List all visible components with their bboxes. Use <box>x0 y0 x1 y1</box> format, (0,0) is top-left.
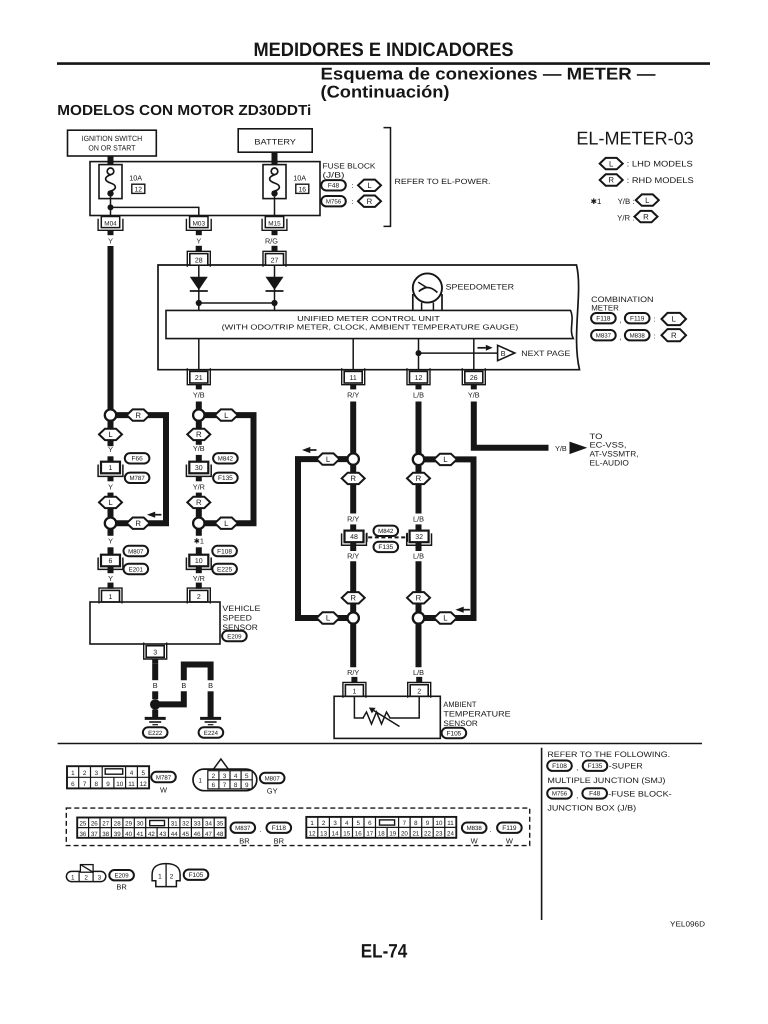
svg-text:15: 15 <box>343 831 350 838</box>
svg-text:M837: M837 <box>235 825 251 832</box>
svg-text:F105: F105 <box>189 872 204 879</box>
svg-text::: : <box>351 181 353 190</box>
svg-text:Y: Y <box>108 537 113 546</box>
svg-text:Y/R: Y/R <box>193 574 205 583</box>
svg-text:1: 1 <box>71 874 75 881</box>
svg-text:10A: 10A <box>129 174 142 183</box>
wire to ground E222 <box>152 710 158 718</box>
svg-text:30: 30 <box>195 465 203 472</box>
wire col4 seg3 <box>416 542 422 551</box>
svg-text:L: L <box>645 196 650 205</box>
hex L col4 bottom <box>434 612 457 623</box>
svg-text:30: 30 <box>137 821 144 828</box>
ref M807 <box>124 546 149 556</box>
wire fuse 12 to M04 <box>110 197 112 217</box>
hex L col3 top <box>317 453 340 464</box>
svg-text:1: 1 <box>71 770 75 777</box>
svg-text:2: 2 <box>322 820 326 827</box>
svg-text:M842: M842 <box>218 456 234 463</box>
svg-text:1: 1 <box>109 465 113 472</box>
inline connector 6 <box>101 555 120 567</box>
svg-text:L/B: L/B <box>413 391 424 400</box>
svg-text:8: 8 <box>95 781 99 788</box>
arrow to EC-VSS <box>570 442 588 455</box>
wire col3 seg2 <box>350 524 356 530</box>
svg-text:M838: M838 <box>467 825 483 832</box>
wire col B seg <box>152 691 158 699</box>
ref M787 bottom <box>151 772 176 782</box>
svg-text:: RHD MODELS: : RHD MODELS <box>627 176 695 185</box>
svg-text:B: B <box>181 681 186 690</box>
inline connector 10 <box>189 555 208 567</box>
smj dashed link <box>368 536 406 538</box>
connector M807 shape <box>193 769 257 791</box>
wire branch to E224 part1 <box>158 691 184 704</box>
svg-text:F119: F119 <box>630 316 645 323</box>
svg-text:L: L <box>224 411 229 420</box>
svg-text:11: 11 <box>128 781 135 788</box>
svg-text:IGNITION SWITCH: IGNITION SWITCH <box>82 134 143 143</box>
wire to next page <box>419 352 498 354</box>
ref F135 smj <box>374 542 399 552</box>
svg-text:28: 28 <box>114 821 121 828</box>
wire pin21 down to junction <box>196 402 202 410</box>
next page flag B <box>498 345 515 360</box>
svg-text:W: W <box>160 785 168 794</box>
wire col2 seg1 <box>196 421 202 445</box>
legend hex L star <box>636 194 659 205</box>
svg-text:1: 1 <box>109 594 113 601</box>
svg-text:M04: M04 <box>104 220 117 227</box>
ref F108 <box>212 546 237 556</box>
ref E209 <box>222 631 247 641</box>
diode D1 <box>190 277 208 290</box>
svg-text:FUSE BLOCK: FUSE BLOCK <box>323 161 376 170</box>
svg-text:11: 11 <box>350 375 357 382</box>
arrow into col4 bottom junction <box>455 607 463 613</box>
svg-text:39: 39 <box>114 831 121 838</box>
svg-text:F66: F66 <box>131 456 143 463</box>
svg-text:35: 35 <box>216 821 223 828</box>
svg-text:48: 48 <box>216 831 223 838</box>
svg-text:BATTERY: BATTERY <box>254 138 296 147</box>
svg-text:47: 47 <box>205 831 212 838</box>
svg-text::: : <box>351 197 353 206</box>
wire col1 seg5 <box>108 529 114 536</box>
svg-text:L: L <box>108 498 113 507</box>
svg-text:F48: F48 <box>328 183 340 190</box>
wire col3 seg5 <box>350 624 356 668</box>
smj dashed box <box>66 808 529 846</box>
svg-text::: : <box>654 331 656 340</box>
inline connector 48 <box>345 531 364 543</box>
svg-text:F48: F48 <box>589 791 601 798</box>
wire col1 seg1 <box>108 421 114 446</box>
svg-text:1: 1 <box>310 820 314 827</box>
svg-text:48: 48 <box>350 534 358 541</box>
svg-text:R: R <box>196 430 202 439</box>
svg-text:25: 25 <box>79 821 86 828</box>
wire pin12 down to junction <box>416 402 422 454</box>
svg-text:16: 16 <box>299 186 307 193</box>
hex R col4 upper <box>407 473 430 484</box>
diode junction dot 2 <box>271 300 277 306</box>
junction circle col3 top <box>348 453 359 464</box>
ref M787 <box>125 473 150 483</box>
ambient pin 2 <box>416 677 422 683</box>
pin 11 <box>342 368 365 385</box>
svg-text:L: L <box>609 159 614 168</box>
ref M842 smj <box>374 526 399 536</box>
svg-text:Y/R :: Y/R : <box>617 213 634 222</box>
svg-text:12: 12 <box>140 781 148 788</box>
fuse block J/B box <box>90 162 320 216</box>
wire col1 seg3 <box>108 476 114 481</box>
wire col3 seg3 <box>350 542 356 551</box>
wire col1 seg2 <box>108 456 114 461</box>
next page junction dot <box>416 350 422 356</box>
svg-text:W: W <box>471 837 479 846</box>
svg-text:E209: E209 <box>227 633 242 640</box>
svg-text:EL-74: EL-74 <box>361 941 408 963</box>
inline connector 32 <box>410 531 429 543</box>
svg-text:37: 37 <box>91 831 98 838</box>
wire col4 seg2 <box>416 524 422 530</box>
ref M837 bottom <box>231 823 256 833</box>
svg-text:B: B <box>208 681 213 690</box>
hex L col1 upper <box>99 429 122 440</box>
svg-text:42: 42 <box>148 831 155 838</box>
wire col1 seg4 <box>108 493 114 518</box>
svg-text:R/G: R/G <box>265 237 278 246</box>
wire M03 to pin 28 <box>196 246 202 252</box>
svg-text:4: 4 <box>234 773 238 780</box>
svg-text:R: R <box>135 519 141 528</box>
connector grid M787 <box>67 766 149 788</box>
svg-text:F118: F118 <box>596 316 611 323</box>
wire down to ground E224 <box>208 691 214 717</box>
svg-text:9: 9 <box>106 781 110 788</box>
svg-text:7: 7 <box>83 781 87 788</box>
svg-text:36: 36 <box>79 831 86 838</box>
svg-text:17: 17 <box>366 831 373 838</box>
svg-text:32: 32 <box>182 821 189 828</box>
svg-text:12: 12 <box>309 831 316 838</box>
ignition switch box <box>68 130 157 156</box>
ref M838 bottom <box>462 823 487 833</box>
legend hex R <box>600 174 623 185</box>
wire col2 seg2 <box>196 455 202 462</box>
vehicle speed sensor box <box>90 602 220 644</box>
hex R col3 lower <box>342 592 365 603</box>
svg-text:MODELOS CON MOTOR ZD30DDTi: MODELOS CON MOTOR ZD30DDTi <box>57 103 311 119</box>
svg-text:B: B <box>153 681 158 690</box>
connector F105 shape <box>152 864 180 887</box>
svg-text:UNIFIED METER CONTROL UNIT: UNIFIED METER CONTROL UNIT <box>297 314 440 323</box>
arrow into col1 bottom junction <box>147 512 155 518</box>
svg-text:L: L <box>326 614 331 623</box>
vss pin 2 <box>196 583 202 589</box>
svg-text:2: 2 <box>83 770 87 777</box>
svg-text:MEDIDORES E INDICADORES: MEDIDORES E INDICADORES <box>254 39 514 61</box>
svg-text:1: 1 <box>199 778 203 785</box>
svg-text:TEMPERATURE: TEMPERATURE <box>443 710 510 719</box>
svg-text:F119: F119 <box>502 825 517 832</box>
connector M04 <box>98 219 123 231</box>
svg-text:.: . <box>489 825 491 834</box>
svg-text:Y: Y <box>108 483 113 492</box>
wire fuse 16 to M15 <box>274 197 276 217</box>
ref F48 LHD <box>321 180 346 190</box>
thermistor arrow <box>373 710 400 727</box>
svg-text:,: , <box>619 316 621 325</box>
svg-text:6: 6 <box>368 820 372 827</box>
svg-text:✱1: ✱1 <box>194 537 204 546</box>
svg-text:Y: Y <box>196 237 201 246</box>
svg-text:3: 3 <box>333 820 337 827</box>
footer separator rule <box>58 743 702 745</box>
svg-text:7: 7 <box>403 820 407 827</box>
svg-text:5: 5 <box>141 770 145 777</box>
svg-text:34: 34 <box>205 821 212 828</box>
svg-text:SENSOR: SENSOR <box>443 719 478 728</box>
svg-text:E209: E209 <box>114 873 129 880</box>
svg-text:,: , <box>619 333 621 342</box>
svg-text:27: 27 <box>271 257 279 264</box>
svg-text:REFER TO THE FOLLOWING.: REFER TO THE FOLLOWING. <box>547 750 670 759</box>
svg-text:E201: E201 <box>129 566 144 573</box>
junction circle col4 bottom <box>413 612 424 623</box>
svg-text:M756: M756 <box>326 199 342 206</box>
wire pin11 down to junction <box>350 402 356 454</box>
svg-text:F118: F118 <box>272 825 287 832</box>
svg-text:F135: F135 <box>218 475 233 482</box>
wire col2 seg3 <box>196 476 202 481</box>
svg-text:45: 45 <box>182 831 189 838</box>
diode D2 <box>266 277 284 290</box>
junction circle col4 top <box>413 454 424 465</box>
svg-text:14: 14 <box>332 831 339 838</box>
svg-text:E224: E224 <box>204 730 219 737</box>
svg-text:TO: TO <box>590 432 603 441</box>
svg-text:18: 18 <box>378 831 385 838</box>
svg-text:F108: F108 <box>217 548 232 555</box>
wire battery to fuse <box>272 152 278 167</box>
svg-text:BR: BR <box>116 882 127 891</box>
svg-text:33: 33 <box>194 821 201 828</box>
svg-text:41: 41 <box>137 831 144 838</box>
junction circle col2 top <box>193 409 204 420</box>
svg-text:: LHD MODELS: : LHD MODELS <box>627 160 694 169</box>
svg-text:M756: M756 <box>552 791 568 798</box>
svg-text:R/Y: R/Y <box>347 668 359 677</box>
svg-text:(Continuación): (Continuación) <box>321 83 450 102</box>
svg-text:R: R <box>671 331 677 340</box>
svg-text:43: 43 <box>159 831 166 838</box>
svg-text::: : <box>654 314 656 323</box>
svg-text:21: 21 <box>412 831 419 838</box>
svg-text:W: W <box>506 837 514 846</box>
svg-text:32: 32 <box>415 534 423 541</box>
svg-text:M837: M837 <box>596 333 612 340</box>
svg-text:EL-METER-03: EL-METER-03 <box>576 128 693 149</box>
svg-text:8: 8 <box>234 782 238 789</box>
svg-text:10: 10 <box>436 820 443 827</box>
svg-text:10A: 10A <box>293 174 306 183</box>
refer block rule <box>541 748 543 920</box>
svg-text:F135: F135 <box>378 544 393 551</box>
ref M837 <box>591 330 616 340</box>
ref E209 bottom <box>109 870 134 880</box>
ref M807 bottom <box>260 773 285 783</box>
svg-text:B: B <box>501 349 506 358</box>
ref E201 <box>124 564 149 574</box>
svg-text:31: 31 <box>171 821 178 828</box>
svg-text:R: R <box>608 176 614 185</box>
svg-text:M03: M03 <box>193 220 206 227</box>
svg-text:46: 46 <box>194 831 201 838</box>
svg-text:26: 26 <box>91 821 98 828</box>
svg-text:SPEEDOMETER: SPEEDOMETER <box>446 283 515 292</box>
connector E209 shape <box>66 871 105 881</box>
svg-text:19: 19 <box>389 831 396 838</box>
vss pin 3 <box>144 643 167 660</box>
svg-text:Y: Y <box>108 237 113 246</box>
ref E225 <box>212 564 237 574</box>
svg-text:✱1: ✱1 <box>591 197 602 206</box>
wire unit to pin 21 <box>198 339 200 370</box>
svg-text:Esquema de conexiones — METER: Esquema de conexiones — METER — <box>321 65 656 84</box>
svg-text:M807: M807 <box>265 775 281 782</box>
svg-text:EL-AUDIO: EL-AUDIO <box>590 459 629 468</box>
hex R col2 upper <box>187 429 210 440</box>
svg-text:12: 12 <box>415 375 423 382</box>
svg-text:L: L <box>443 614 448 623</box>
svg-text:5: 5 <box>245 773 249 780</box>
svg-text:Y/R: Y/R <box>193 483 205 492</box>
svg-text:24: 24 <box>447 831 454 838</box>
svg-text:M787: M787 <box>156 774 172 781</box>
legend hex L <box>600 158 623 169</box>
header rule <box>57 62 710 65</box>
ref E224 <box>199 727 224 737</box>
wire col2 seg7 <box>196 567 202 573</box>
svg-text:ON OR START: ON OR START <box>88 144 135 153</box>
wire unit to pin 12 <box>418 339 420 370</box>
svg-text:,: , <box>576 791 578 800</box>
pin 26 <box>462 368 485 385</box>
svg-text:4: 4 <box>345 820 349 827</box>
svg-text:2: 2 <box>84 874 88 881</box>
combination meter box <box>158 265 580 370</box>
svg-text:F135: F135 <box>588 763 603 770</box>
ground E222 <box>145 717 166 720</box>
fuse 10A 16 <box>263 165 286 199</box>
svg-text:R: R <box>643 212 649 221</box>
pin 27 <box>272 246 278 252</box>
svg-text:1: 1 <box>352 688 356 695</box>
svg-text:,: , <box>576 763 578 772</box>
wire col3 seg4 <box>350 561 356 612</box>
svg-text:-FUSE BLOCK-: -FUSE BLOCK- <box>608 789 672 798</box>
wire M15 to pin 27 <box>272 246 278 252</box>
svg-text:2: 2 <box>170 874 174 881</box>
arrow out of col3 top junction <box>302 447 310 453</box>
svg-text:28: 28 <box>195 257 203 264</box>
pin 12 <box>407 368 430 385</box>
ref M756 footer <box>547 788 572 798</box>
svg-text:M838: M838 <box>630 333 646 340</box>
svg-text:(J/B): (J/B) <box>323 171 346 180</box>
svg-text:8: 8 <box>414 820 418 827</box>
svg-text:3: 3 <box>153 649 157 656</box>
hex L col1 lower <box>99 497 122 508</box>
ref F135 <box>213 473 238 483</box>
svg-text:9: 9 <box>426 820 430 827</box>
svg-text:5: 5 <box>356 820 360 827</box>
svg-text:YEL096D: YEL096D <box>670 920 706 929</box>
svg-text:23: 23 <box>436 831 443 838</box>
svg-text:REFER TO EL-POWER.: REFER TO EL-POWER. <box>395 177 491 186</box>
svg-text:L: L <box>367 181 372 190</box>
wire col4 seg5 <box>416 624 422 668</box>
inline connector 1 <box>101 462 120 474</box>
svg-text:GY: GY <box>267 786 278 795</box>
svg-text:13: 13 <box>320 831 327 838</box>
wire col4 seg1 <box>416 465 422 513</box>
pin 28 <box>196 246 202 252</box>
wire branch to M03 <box>111 207 199 216</box>
loop wire col1 RHD <box>111 415 167 523</box>
svg-text:L: L <box>326 455 331 464</box>
wire unit to pin 26 <box>473 339 475 370</box>
hex R col2 lower <box>187 497 210 508</box>
next page direction arrow <box>478 347 486 349</box>
svg-text:7: 7 <box>223 782 227 789</box>
svg-text:40: 40 <box>125 831 132 838</box>
thermistor zigzag <box>363 712 392 724</box>
inline connector 30 <box>189 462 208 474</box>
svg-text:R: R <box>367 197 373 206</box>
svg-text:L: L <box>108 430 113 439</box>
svg-text:1: 1 <box>158 874 162 881</box>
svg-text:3: 3 <box>98 874 102 881</box>
svg-text:R: R <box>135 411 141 420</box>
thermistor internal wiring <box>354 696 364 718</box>
svg-text:L: L <box>443 455 448 464</box>
wire pin 27 internal <box>274 265 276 310</box>
junction circle col1 top <box>105 409 116 420</box>
svg-text:R: R <box>416 594 422 603</box>
connector M15 <box>262 219 287 231</box>
svg-text:L/B: L/B <box>413 551 424 560</box>
svg-text:BR: BR <box>274 837 285 846</box>
connector grid M837/F118 <box>77 818 225 838</box>
fuse 10A 12 <box>99 165 122 199</box>
legend hex R star <box>635 211 658 222</box>
diode junction wire <box>199 302 275 304</box>
svg-text:29: 29 <box>125 821 132 828</box>
diode junction dot 1 <box>196 300 202 306</box>
junction circle col3 bottom <box>348 612 359 623</box>
loop wire col3 LHD <box>298 459 353 618</box>
svg-text:2: 2 <box>212 773 216 780</box>
wire M04 down to junction <box>108 246 114 410</box>
smj tick left <box>366 533 368 542</box>
svg-text:F105: F105 <box>446 730 461 737</box>
svg-text:E225: E225 <box>217 566 233 573</box>
svg-text:44: 44 <box>171 831 178 838</box>
